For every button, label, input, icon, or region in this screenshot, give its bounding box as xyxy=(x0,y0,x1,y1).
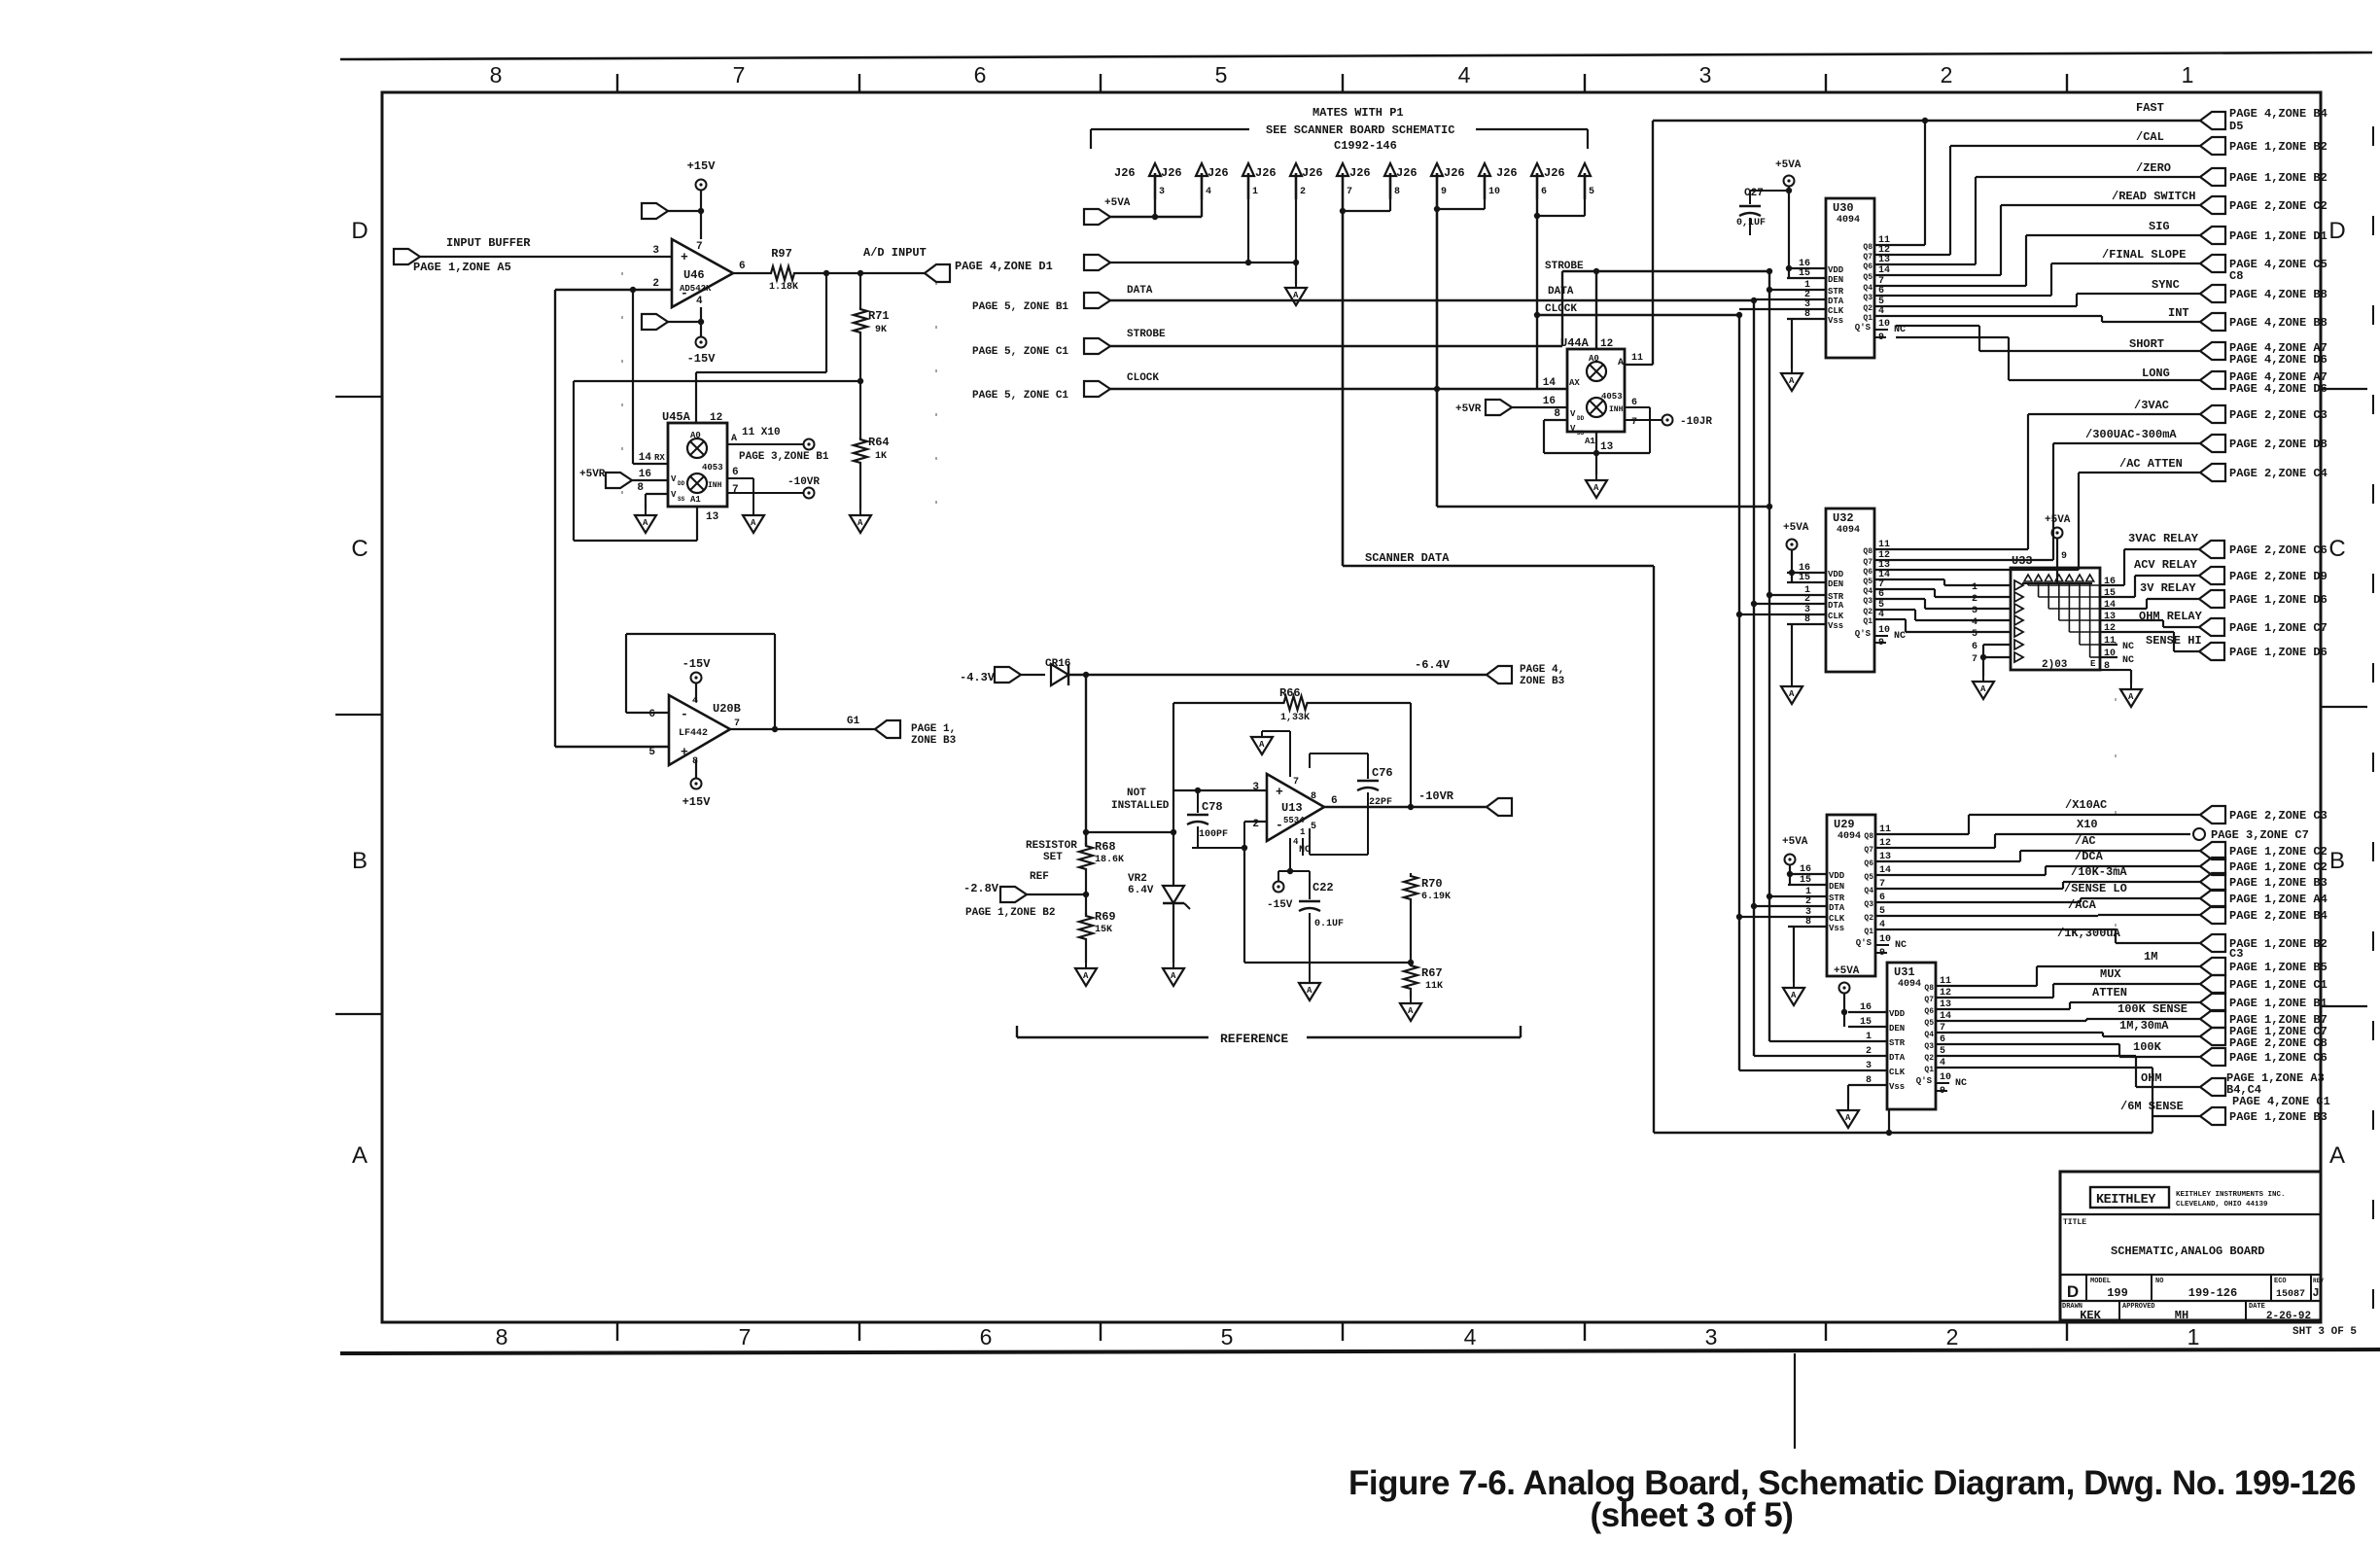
svg-text:2: 2 xyxy=(1946,1324,1959,1349)
svg-text:2: 2 xyxy=(1972,594,1977,605)
svg-text:NO: NO xyxy=(2155,1278,2163,1285)
svg-text:AX: AX xyxy=(1569,378,1580,388)
svg-text:NC: NC xyxy=(1955,1078,1967,1089)
svg-text:5: 5 xyxy=(1972,629,1977,640)
svg-text:R67: R67 xyxy=(1421,966,1443,980)
svg-text:Q7: Q7 xyxy=(1863,558,1872,567)
svg-text:A: A xyxy=(2128,692,2134,702)
svg-text:A: A xyxy=(1980,684,1986,694)
svg-text:1: 1 xyxy=(2182,62,2194,88)
svg-text:A1: A1 xyxy=(690,495,701,505)
svg-text:6: 6 xyxy=(1972,642,1977,652)
svg-text:PAGE 5, ZONE C1: PAGE 5, ZONE C1 xyxy=(972,390,1068,402)
svg-text:1: 1 xyxy=(1300,827,1306,837)
svg-text:REF: REF xyxy=(1030,871,1049,883)
svg-text:4053: 4053 xyxy=(1601,392,1623,402)
svg-text:R97: R97 xyxy=(771,247,792,261)
svg-text:C78: C78 xyxy=(1202,800,1223,814)
svg-text:U46: U46 xyxy=(683,268,705,282)
svg-text:/READ SWITCH: /READ SWITCH xyxy=(2112,190,2195,203)
svg-text:SCHEMATIC,ANALOG BOARD: SCHEMATIC,ANALOG BOARD xyxy=(2111,1244,2264,1258)
svg-text:16: 16 xyxy=(1800,864,1811,875)
svg-text:DEN: DEN xyxy=(1829,882,1844,892)
svg-text:APPROVED: APPROVED xyxy=(2122,1303,2155,1311)
svg-text:PAGE 4,ZONE B8: PAGE 4,ZONE B8 xyxy=(2229,288,2327,301)
svg-text:Q2: Q2 xyxy=(1863,608,1872,616)
svg-text:Q1: Q1 xyxy=(1924,1066,1934,1074)
svg-text:PAGE 1,ZONE B2: PAGE 1,ZONE B2 xyxy=(2229,171,2327,185)
svg-text:Q8: Q8 xyxy=(1863,547,1872,556)
svg-text:4: 4 xyxy=(1458,62,1471,88)
svg-text:/X10AC: /X10AC xyxy=(2065,798,2107,812)
svg-text:DD: DD xyxy=(1577,415,1585,422)
svg-text:SYNC: SYNC xyxy=(2152,278,2180,292)
svg-text:V: V xyxy=(1570,424,1576,434)
svg-text:13: 13 xyxy=(1600,441,1614,453)
svg-text:9: 9 xyxy=(2061,551,2067,562)
svg-text:J26: J26 xyxy=(1444,166,1465,180)
svg-text:U45A: U45A xyxy=(662,410,691,424)
svg-text:PAGE 4,ZONE C1: PAGE 4,ZONE C1 xyxy=(2232,1095,2330,1108)
svg-text:Q3: Q3 xyxy=(1863,597,1872,606)
svg-text:7: 7 xyxy=(732,484,739,496)
svg-text:DTA: DTA xyxy=(1828,601,1844,611)
svg-text:/AC: /AC xyxy=(2075,834,2096,848)
svg-text:+5VA: +5VA xyxy=(1775,159,1802,171)
svg-text:6: 6 xyxy=(1878,589,1884,600)
svg-text:A: A xyxy=(1171,971,1176,981)
svg-text:10: 10 xyxy=(2104,648,2116,659)
svg-text:/ACA: /ACA xyxy=(2068,898,2097,912)
svg-text:REV: REV xyxy=(2313,1278,2324,1284)
svg-text:J26: J26 xyxy=(1349,166,1371,180)
svg-text:-15V: -15V xyxy=(682,657,712,671)
svg-text:10: 10 xyxy=(1879,934,1891,945)
svg-text:U20B: U20B xyxy=(713,702,741,716)
svg-text:Q6: Q6 xyxy=(1864,859,1873,868)
svg-text:Q4: Q4 xyxy=(1864,887,1873,895)
svg-text:-15V: -15V xyxy=(687,352,717,366)
svg-text:+5VA: +5VA xyxy=(1834,965,1860,977)
svg-text:+5VA: +5VA xyxy=(1782,836,1808,848)
svg-text:12: 12 xyxy=(1940,988,1951,999)
svg-text:+5VR: +5VR xyxy=(579,469,606,480)
svg-text:Q2: Q2 xyxy=(1924,1054,1934,1063)
svg-text:PAGE 1,ZONE A4: PAGE 1,ZONE A4 xyxy=(2229,893,2327,906)
svg-text:6.4V: 6.4V xyxy=(1128,885,1154,896)
svg-text:PAGE 1,ZONE C1: PAGE 1,ZONE C1 xyxy=(2229,978,2327,992)
svg-text:6: 6 xyxy=(1541,187,1547,197)
svg-text:5: 5 xyxy=(1221,1324,1234,1349)
svg-text:PAGE 1,ZONE D1: PAGE 1,ZONE D1 xyxy=(2229,229,2327,243)
svg-text:6: 6 xyxy=(739,261,746,272)
svg-text:DATA: DATA xyxy=(1127,285,1153,297)
svg-text:DTA: DTA xyxy=(1889,1053,1906,1063)
svg-text:8: 8 xyxy=(1866,1075,1872,1086)
svg-text:10: 10 xyxy=(1940,1072,1951,1083)
svg-text:PAGE 4,ZONE B8: PAGE 4,ZONE B8 xyxy=(2229,316,2327,330)
svg-text:5: 5 xyxy=(648,747,655,758)
svg-text:C3: C3 xyxy=(2229,947,2243,961)
svg-text:E: E xyxy=(2090,659,2096,669)
svg-text:NOT: NOT xyxy=(1127,788,1146,799)
svg-text:3: 3 xyxy=(1159,187,1165,197)
svg-text:C76: C76 xyxy=(1372,766,1393,780)
svg-text:ECO: ECO xyxy=(2274,1278,2287,1285)
svg-text:DEN: DEN xyxy=(1889,1024,1905,1034)
svg-text:15: 15 xyxy=(1799,268,1810,279)
svg-text:TITLE: TITLE xyxy=(2063,1218,2086,1227)
svg-text:2: 2 xyxy=(652,278,659,290)
svg-text:U30: U30 xyxy=(1833,201,1854,215)
svg-text:MODEL: MODEL xyxy=(2090,1278,2111,1285)
svg-text:INH: INH xyxy=(708,481,722,490)
svg-text:1: 1 xyxy=(1252,187,1258,197)
svg-text:Q7: Q7 xyxy=(1864,846,1873,855)
svg-text:100K: 100K xyxy=(2133,1040,2162,1054)
svg-text:REFERENCE: REFERENCE xyxy=(1220,1032,1288,1046)
svg-text:D5: D5 xyxy=(2229,120,2243,133)
svg-text:/3VAC: /3VAC xyxy=(2134,399,2169,412)
svg-text:11: 11 xyxy=(1879,824,1891,835)
svg-text:6: 6 xyxy=(1331,795,1338,807)
svg-text:PAGE 1,ZONE C2: PAGE 1,ZONE C2 xyxy=(2229,845,2327,859)
svg-text:Q'S: Q'S xyxy=(1855,629,1872,639)
svg-text:12: 12 xyxy=(710,412,722,424)
svg-text:A: A xyxy=(643,518,648,528)
svg-text:X10: X10 xyxy=(2077,818,2098,831)
svg-text:5: 5 xyxy=(1311,822,1316,832)
svg-text:0.1UF: 0.1UF xyxy=(1314,919,1344,929)
svg-text:+: + xyxy=(1276,785,1283,799)
svg-text:R70: R70 xyxy=(1421,877,1443,891)
svg-text:SENSE HI: SENSE HI xyxy=(2146,634,2202,648)
svg-text:/CAL: /CAL xyxy=(2136,130,2164,144)
svg-text:PAGE 3,ZONE C7: PAGE 3,ZONE C7 xyxy=(2211,828,2309,842)
svg-text:U31: U31 xyxy=(1894,965,1915,979)
svg-text:INT: INT xyxy=(2168,306,2189,320)
svg-text:Q8: Q8 xyxy=(1863,243,1872,252)
svg-text:4: 4 xyxy=(1940,1058,1945,1069)
svg-text:8: 8 xyxy=(1805,917,1811,928)
svg-text:/ZERO: /ZERO xyxy=(2136,161,2171,175)
svg-text:KEK: KEK xyxy=(2080,1309,2101,1322)
svg-text:/1K,300uA: /1K,300uA xyxy=(2057,927,2121,940)
svg-text:/AC ATTEN: /AC ATTEN xyxy=(2119,457,2183,471)
svg-text:4094: 4094 xyxy=(1898,979,1921,990)
svg-text:10: 10 xyxy=(1878,319,1890,330)
svg-text:6.19K: 6.19K xyxy=(1421,892,1451,902)
svg-text:J26: J26 xyxy=(1302,166,1323,180)
svg-text:A0: A0 xyxy=(1589,354,1599,364)
svg-text:4: 4 xyxy=(1206,187,1211,197)
svg-text:6: 6 xyxy=(1878,286,1884,297)
svg-text:5: 5 xyxy=(1940,1046,1945,1057)
svg-text:OHM: OHM xyxy=(2141,1071,2162,1085)
svg-text:14: 14 xyxy=(1879,865,1891,876)
svg-text:Q2: Q2 xyxy=(1863,304,1872,313)
svg-text:6: 6 xyxy=(1940,1034,1945,1045)
svg-text:199: 199 xyxy=(2107,1286,2128,1300)
svg-text:12: 12 xyxy=(2104,623,2116,634)
svg-text:11: 11 xyxy=(1940,976,1951,987)
svg-text:15: 15 xyxy=(1800,875,1811,886)
svg-text:+15V: +15V xyxy=(687,159,717,173)
svg-text:B: B xyxy=(352,848,367,874)
svg-text:5: 5 xyxy=(1215,62,1228,88)
svg-text:DTA: DTA xyxy=(1828,297,1844,306)
svg-text:-10VR: -10VR xyxy=(787,476,820,488)
svg-text:12: 12 xyxy=(1600,338,1613,350)
svg-text:7: 7 xyxy=(1293,777,1299,788)
svg-text:6: 6 xyxy=(1879,893,1885,903)
svg-text:-: - xyxy=(681,707,688,721)
svg-text:VDD: VDD xyxy=(1828,570,1844,579)
svg-text:PAGE 1,ZONE B2: PAGE 1,ZONE B2 xyxy=(2229,937,2327,951)
svg-text:3: 3 xyxy=(1699,62,1712,88)
svg-text:2-26-92: 2-26-92 xyxy=(2266,1311,2311,1322)
svg-text:Q4: Q4 xyxy=(1924,1031,1934,1039)
svg-text:VDD: VDD xyxy=(1828,265,1844,275)
svg-text:U13: U13 xyxy=(1281,801,1303,815)
svg-text:SS: SS xyxy=(678,496,685,503)
svg-text:Vss: Vss xyxy=(1889,1082,1905,1092)
svg-text:6: 6 xyxy=(648,709,655,720)
svg-text:Q5: Q5 xyxy=(1863,273,1872,282)
svg-text:PAGE 2,ZONE D9: PAGE 2,ZONE D9 xyxy=(2229,570,2327,583)
svg-text:7: 7 xyxy=(733,62,746,88)
svg-text:5534: 5534 xyxy=(1283,816,1305,825)
svg-text:LF442: LF442 xyxy=(679,728,708,739)
svg-text:C: C xyxy=(2328,536,2345,562)
svg-text:LONG: LONG xyxy=(2142,367,2170,380)
svg-text:16: 16 xyxy=(1543,396,1556,407)
svg-text:R69: R69 xyxy=(1095,910,1116,924)
svg-text:8: 8 xyxy=(1554,408,1560,420)
svg-text:Vss: Vss xyxy=(1828,316,1843,326)
svg-text:Q3: Q3 xyxy=(1864,900,1873,909)
svg-text:VDD: VDD xyxy=(1889,1009,1906,1019)
svg-text:PAGE 1,ZONE D6: PAGE 1,ZONE D6 xyxy=(2229,593,2327,607)
svg-text:A: A xyxy=(751,518,756,528)
svg-text:1: 1 xyxy=(1866,1032,1872,1042)
svg-text:AD542K: AD542K xyxy=(680,284,712,294)
svg-text:ACV RELAY: ACV RELAY xyxy=(2134,558,2198,572)
svg-text:13: 13 xyxy=(1878,255,1890,265)
svg-text:DEN: DEN xyxy=(1828,579,1843,589)
svg-text:100PF: 100PF xyxy=(1199,829,1228,840)
svg-text:/10K-3mA: /10K-3mA xyxy=(2071,865,2127,879)
svg-text:8: 8 xyxy=(2104,661,2110,672)
svg-text:NC: NC xyxy=(1894,631,1906,642)
svg-text:NC: NC xyxy=(2122,642,2134,652)
svg-text:3: 3 xyxy=(1705,1324,1718,1349)
svg-text:MATES WITH P1: MATES WITH P1 xyxy=(1312,106,1404,120)
svg-text:D: D xyxy=(2067,1282,2079,1301)
svg-text:1M,30mA: 1M,30mA xyxy=(2119,1019,2169,1033)
svg-text:2)03: 2)03 xyxy=(2042,659,2068,671)
svg-text:VDD: VDD xyxy=(1829,871,1845,881)
svg-text:PAGE 2,ZONE D8: PAGE 2,ZONE D8 xyxy=(2229,438,2327,451)
svg-text:PAGE 2,ZONE C4: PAGE 2,ZONE C4 xyxy=(2229,467,2327,480)
svg-text:V: V xyxy=(671,474,677,484)
svg-text:3: 3 xyxy=(1252,782,1259,793)
svg-text:11: 11 xyxy=(2104,636,2116,647)
svg-text:14: 14 xyxy=(2104,600,2116,611)
svg-text:1.18K: 1.18K xyxy=(769,282,798,293)
svg-text:A: A xyxy=(731,434,737,444)
svg-text:5: 5 xyxy=(1879,906,1885,917)
svg-text:C1992-146: C1992-146 xyxy=(1334,139,1397,153)
svg-text:U29: U29 xyxy=(1834,818,1855,831)
svg-text:/DCA: /DCA xyxy=(2075,850,2104,863)
svg-text:15087: 15087 xyxy=(2276,1289,2305,1300)
svg-text:1,33K: 1,33K xyxy=(1280,713,1310,723)
svg-text:PAGE 3,ZONE B1: PAGE 3,ZONE B1 xyxy=(739,451,829,463)
svg-text:Q6: Q6 xyxy=(1863,263,1872,271)
svg-text:OHM RELAY: OHM RELAY xyxy=(2139,610,2203,623)
svg-text:Figure 7-6. Analog Board, Sche: Figure 7-6. Analog Board, Schematic Diag… xyxy=(1348,1464,2356,1502)
svg-text:KEITHLEY INSTRUMENTS INC.: KEITHLEY INSTRUMENTS INC. xyxy=(2176,1191,2286,1199)
svg-text:MUX: MUX xyxy=(2100,967,2121,981)
svg-text:2: 2 xyxy=(1804,594,1810,605)
svg-text:2: 2 xyxy=(1300,187,1306,197)
svg-text:Q8: Q8 xyxy=(1924,984,1934,993)
svg-text:+: + xyxy=(681,745,688,759)
svg-text:6: 6 xyxy=(732,467,739,478)
svg-text:FAST: FAST xyxy=(2136,101,2164,115)
svg-text:13: 13 xyxy=(2104,612,2116,622)
svg-text:PAGE 5, ZONE B1: PAGE 5, ZONE B1 xyxy=(972,301,1068,313)
svg-text:2: 2 xyxy=(1805,896,1811,907)
svg-text:Q2: Q2 xyxy=(1864,914,1873,923)
svg-text:16: 16 xyxy=(2104,577,2116,587)
svg-text:D: D xyxy=(2328,218,2345,244)
svg-text:A: A xyxy=(2329,1142,2345,1169)
svg-text:15: 15 xyxy=(1799,573,1810,583)
svg-text:A: A xyxy=(857,518,863,528)
svg-text:5: 5 xyxy=(1589,187,1594,197)
svg-text:DATE: DATE xyxy=(2249,1303,2265,1311)
svg-text:VR2: VR2 xyxy=(1128,873,1147,885)
svg-text:+5VA: +5VA xyxy=(2045,514,2071,526)
svg-text:15K: 15K xyxy=(1095,925,1112,935)
svg-text:CLK: CLK xyxy=(1828,306,1844,316)
svg-text:0,1UF: 0,1UF xyxy=(1736,218,1766,228)
svg-text:-10JR: -10JR xyxy=(1680,416,1712,428)
svg-text:SEE SCANNER BOARD SCHEMATIC: SEE SCANNER BOARD SCHEMATIC xyxy=(1266,123,1454,137)
svg-text:Q4: Q4 xyxy=(1863,587,1872,596)
svg-text:C22: C22 xyxy=(1312,881,1334,894)
svg-text:13: 13 xyxy=(706,511,719,523)
svg-text:2: 2 xyxy=(1941,62,1953,88)
svg-text:+: + xyxy=(681,250,688,264)
svg-text:J26: J26 xyxy=(1396,166,1417,180)
svg-text:7: 7 xyxy=(1972,654,1977,665)
svg-text:14: 14 xyxy=(1543,377,1557,389)
svg-text:INSTALLED: INSTALLED xyxy=(1111,800,1170,812)
svg-text:A: A xyxy=(1259,740,1265,750)
svg-text:-4.3V: -4.3V xyxy=(960,671,996,684)
svg-text:A: A xyxy=(1408,1006,1414,1016)
svg-text:STR: STR xyxy=(1889,1038,1906,1048)
svg-text:8: 8 xyxy=(1804,614,1810,625)
svg-text:Q3: Q3 xyxy=(1863,294,1872,302)
svg-text:10: 10 xyxy=(1488,187,1500,197)
svg-text:R71: R71 xyxy=(868,309,890,323)
svg-text:PAGE 4,ZONE D6: PAGE 4,ZONE D6 xyxy=(2229,382,2327,396)
svg-text:PAGE 2,ZONE B4: PAGE 2,ZONE B4 xyxy=(2229,909,2327,923)
svg-text:ZONE B3: ZONE B3 xyxy=(1520,676,1565,687)
svg-text:8: 8 xyxy=(637,482,644,494)
svg-text:SS: SS xyxy=(1577,430,1585,437)
svg-text:14: 14 xyxy=(639,452,652,464)
svg-text:NC: NC xyxy=(1895,940,1907,951)
svg-text:-6.4V: -6.4V xyxy=(1415,658,1451,672)
svg-text:D: D xyxy=(351,218,367,244)
svg-text:A: A xyxy=(1307,986,1312,996)
svg-text:J26: J26 xyxy=(1544,166,1565,180)
svg-text:+5VA: +5VA xyxy=(1783,522,1809,534)
svg-text:A: A xyxy=(1789,689,1795,699)
svg-text:KEITHLEY: KEITHLEY xyxy=(2096,1193,2156,1208)
svg-text:ZONE B3: ZONE B3 xyxy=(911,735,957,747)
svg-text:J26: J26 xyxy=(1114,166,1136,180)
svg-text:4094: 4094 xyxy=(1837,215,1860,226)
svg-text:SHT 3 OF 5: SHT 3 OF 5 xyxy=(2292,1326,2357,1338)
svg-text:C27: C27 xyxy=(1744,188,1764,199)
svg-text:Q1: Q1 xyxy=(1863,314,1872,323)
svg-text:Q5: Q5 xyxy=(1924,1019,1934,1028)
svg-text:NC: NC xyxy=(2122,655,2134,666)
svg-text:PAGE 2,ZONE C3: PAGE 2,ZONE C3 xyxy=(2229,809,2327,823)
svg-text:9: 9 xyxy=(1441,187,1447,197)
svg-text:+5VR: +5VR xyxy=(1455,403,1482,415)
svg-text:7: 7 xyxy=(734,718,740,729)
svg-text:ATTEN: ATTEN xyxy=(2092,986,2127,999)
svg-text:4: 4 xyxy=(1972,617,1977,628)
svg-text:PAGE 1,ZONE B2: PAGE 1,ZONE B2 xyxy=(965,907,1055,919)
svg-text:PAGE 1,ZONE C6: PAGE 1,ZONE C6 xyxy=(2229,1051,2327,1065)
svg-text:R66: R66 xyxy=(1279,686,1301,700)
svg-text:8: 8 xyxy=(1311,791,1316,802)
svg-text:PAGE 1,ZONE D6: PAGE 1,ZONE D6 xyxy=(2229,646,2327,659)
svg-text:PAGE 1,ZONE B5: PAGE 1,ZONE B5 xyxy=(2229,961,2327,974)
svg-text:Q8: Q8 xyxy=(1864,832,1873,841)
svg-text:PAGE 4,ZONE D1: PAGE 4,ZONE D1 xyxy=(955,260,1053,273)
svg-text:11 X10: 11 X10 xyxy=(742,427,781,438)
svg-text:11: 11 xyxy=(1631,353,1643,364)
svg-text:PAGE 2,ZONE C6: PAGE 2,ZONE C6 xyxy=(2229,543,2327,557)
svg-text:3: 3 xyxy=(1972,606,1977,616)
svg-text:16: 16 xyxy=(1860,1002,1872,1013)
svg-text:7: 7 xyxy=(1631,417,1637,428)
svg-text:J26: J26 xyxy=(1255,166,1277,180)
svg-text:PAGE 1,ZONE B3: PAGE 1,ZONE B3 xyxy=(2229,1110,2327,1124)
svg-text:A: A xyxy=(1293,291,1299,300)
svg-text:A: A xyxy=(1845,1113,1851,1123)
svg-text:6: 6 xyxy=(974,62,987,88)
svg-text:C: C xyxy=(351,536,367,562)
svg-text:15: 15 xyxy=(2104,588,2116,599)
svg-text:3: 3 xyxy=(652,245,659,257)
svg-text:7: 7 xyxy=(1347,187,1352,197)
svg-text:+5VA: +5VA xyxy=(1104,197,1131,209)
svg-text:U44A: U44A xyxy=(1560,336,1590,350)
svg-text:13: 13 xyxy=(1940,999,1951,1010)
svg-text:3VAC RELAY: 3VAC RELAY xyxy=(2128,532,2199,545)
svg-text:3: 3 xyxy=(1866,1061,1872,1071)
